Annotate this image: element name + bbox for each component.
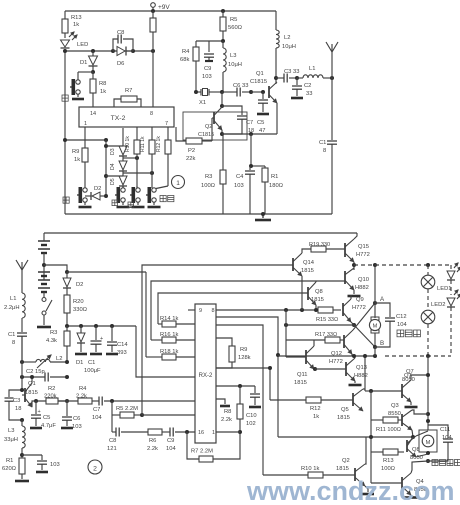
capacitor C11 104: [428, 425, 448, 438]
transistor Q13 H882: [345, 362, 347, 376]
wire pin6 row: [216, 325, 263, 475]
capacitor C10 102: [254, 386, 256, 393]
diode D1: [92, 51, 94, 56]
svg-text:1815: 1815: [336, 466, 349, 472]
bus wire pin13: [151, 281, 345, 340]
svg-text:C9: C9: [204, 66, 211, 72]
transistor Q11 1815: [286, 356, 306, 358]
capacitor C5 4.7uF: [35, 401, 37, 414]
transistor Q5 1815: [352, 393, 354, 406]
wire pin15 row: [142, 414, 195, 416]
svg-text:C3: C3: [13, 398, 20, 404]
svg-text:R19 330: R19 330: [309, 242, 330, 248]
resistor R1 620: [19, 458, 25, 474]
svg-text:100μF: 100μF: [84, 368, 101, 374]
node LED junction row: [65, 50, 153, 52]
svg-text:R13: R13: [71, 15, 82, 21]
capacitor C12 104: [375, 303, 390, 317]
svg-text:D2: D2: [76, 282, 83, 288]
svg-text:C6 33: C6 33: [233, 83, 248, 89]
transistor Q15 H772: [344, 243, 346, 257]
transistor Q10 H882: [344, 271, 346, 284]
svg-text:33: 33: [306, 91, 312, 97]
lamp LED1 bulb: [427, 265, 429, 275]
svg-text:Q1: Q1: [256, 71, 264, 77]
node D1 bottom: [91, 70, 95, 74]
svg-text:104: 104: [166, 446, 176, 452]
capacitor C7 104: [98, 397, 100, 406]
svg-text:Q9: Q9: [356, 297, 364, 303]
node B: [373, 345, 377, 349]
bus wire pin12: [158, 293, 308, 324]
ground Q4: [410, 495, 412, 496]
capacitor C1 100uF: [95, 326, 97, 340]
svg-text:128k: 128k: [238, 355, 251, 361]
resistor R10 1k: [136, 127, 138, 140]
pushbutton S-fwd: [136, 186, 138, 188]
svg-text:1k: 1k: [74, 157, 80, 163]
resistor R13 100: [371, 451, 383, 453]
wire R4 C9 branch: [196, 40, 223, 42]
bus left column: [285, 310, 287, 357]
svg-text:R7 2.2M: R7 2.2M: [191, 449, 213, 455]
svg-text:B: B: [380, 340, 384, 347]
svg-text:104: 104: [397, 322, 407, 328]
svg-text:C1: C1: [8, 332, 15, 338]
svg-text:R2: R2: [48, 386, 55, 392]
capacitor C3 18: [9, 390, 22, 397]
wire emitter row: [36, 400, 67, 402]
resistor R13 1k: [64, 11, 66, 19]
svg-text:LED2: LED2: [431, 302, 446, 308]
svg-text:47: 47: [259, 128, 265, 134]
antenna TX: [331, 44, 333, 58]
svg-text:H772: H772: [356, 252, 370, 258]
capacitor C9 104: [162, 431, 170, 433]
svg-text:C2: C2: [304, 83, 311, 89]
svg-text:620Ω: 620Ω: [2, 466, 17, 472]
svg-text:R12: R12: [310, 406, 321, 412]
resistor unlabeled top right: [152, 11, 154, 18]
svg-text:RX-2: RX-2: [199, 373, 213, 379]
svg-text:R14 1k: R14 1k: [160, 316, 178, 322]
trimmer P2 22k: [176, 127, 186, 141]
svg-text:10μH: 10μH: [228, 62, 242, 68]
svg-text:1: 1: [84, 121, 87, 127]
svg-text:Q1: Q1: [28, 381, 36, 387]
transistor Q7 8050: [401, 384, 403, 398]
svg-text:M: M: [373, 324, 378, 330]
resistor R17 33: [286, 339, 325, 341]
wire lamp column steer: [427, 356, 429, 430]
svg-text:33μH: 33μH: [4, 437, 18, 443]
svg-text:Q2: Q2: [205, 124, 212, 130]
resistor R9 1k: [84, 140, 86, 148]
resistor R8 2.2k: [239, 386, 241, 404]
resistor R1 180: [264, 166, 266, 168]
capacitor C9 103: [204, 53, 214, 55]
resistor R12 1k: [167, 127, 169, 140]
wire lamp feed: [374, 265, 376, 303]
wire Q4 collector: [411, 461, 428, 473]
wire Q3 collector: [412, 410, 428, 414]
wire Q14 collector: [302, 249, 311, 253]
wire top supply rail: [65, 10, 276, 12]
svg-text:L3: L3: [8, 428, 14, 434]
wire Q9 collector: [350, 295, 352, 299]
svg-text:R5: R5: [230, 17, 237, 23]
resistor R9 128k: [216, 338, 232, 346]
LED indicator: [61, 40, 70, 47]
resistor R6 2.2k: [148, 429, 162, 435]
wire pin8 row: [216, 309, 318, 311]
wire tank column: [21, 336, 23, 362]
svg-text:L2: L2: [56, 356, 62, 362]
resistor R20 330: [64, 295, 70, 313]
resistor R3 4.3k: [66, 326, 68, 331]
svg-text:Q8: Q8: [315, 289, 323, 295]
svg-text:4.7μF: 4.7μF: [41, 423, 56, 429]
svg-text:C1: C1: [319, 140, 326, 146]
crystal X1: [196, 91, 201, 93]
ground Q13: [354, 381, 356, 383]
main motor M1: [374, 303, 376, 318]
wire pin7 row: [216, 317, 278, 437]
svg-text:D1: D1: [76, 360, 83, 366]
svg-text:2: 2: [93, 466, 97, 473]
svg-text:R8: R8: [224, 409, 231, 415]
node A: [373, 301, 377, 305]
svg-text:8: 8: [12, 340, 15, 346]
wire diode matrix column A: [105, 140, 107, 196]
svg-text:R4: R4: [182, 49, 190, 55]
svg-text:9: 9: [199, 308, 202, 314]
svg-text:2.2μH: 2.2μH: [4, 305, 20, 311]
svg-text:Q10: Q10: [358, 277, 369, 283]
svg-text:C1: C1: [88, 360, 95, 366]
svg-text:393: 393: [117, 350, 127, 356]
wire Q12 collector X: [352, 330, 353, 331]
wire Q3 emitter: [412, 430, 413, 437]
svg-text:+: +: [38, 409, 41, 415]
diode D2: [85, 195, 91, 197]
ground Q10: [353, 290, 355, 294]
svg-text:L3: L3: [230, 53, 236, 59]
capacitor C6 103: [66, 401, 68, 416]
svg-text:D6: D6: [117, 61, 124, 67]
oscillator module box: [183, 112, 247, 140]
wire Q8 collector link: [315, 281, 317, 282]
wire to D2: [44, 265, 67, 272]
svg-text:R5 2.2M: R5 2.2M: [116, 406, 138, 412]
svg-text:C12: C12: [396, 314, 407, 320]
svg-text:R6: R6: [149, 438, 156, 444]
wire Q8b collector: [416, 431, 428, 436]
resistor R5 560: [222, 11, 224, 17]
capacitor C3 33: [274, 76, 278, 80]
resistor R15 33: [318, 307, 333, 313]
capacitor C1b 8: [17, 332, 27, 334]
svg-text:Q3: Q3: [391, 403, 399, 409]
svg-text:H772: H772: [352, 305, 366, 311]
label circuit 1: [172, 176, 185, 189]
svg-text:C4: C4: [236, 174, 244, 180]
diode D6: [113, 50, 117, 52]
pushbutton S-left: [78, 71, 93, 73]
ground RX pin: [216, 399, 225, 404]
svg-text:2.2k: 2.2k: [221, 417, 232, 423]
wire pin1 stub: [84, 127, 86, 140]
svg-text:R16 1k: R16 1k: [160, 332, 178, 338]
wire pin9 stub: [188, 309, 195, 311]
resistor R12 1k: [270, 399, 306, 401]
svg-text:1: 1: [176, 180, 180, 187]
transistor Q1 1815: [24, 388, 26, 402]
ground Q7: [410, 402, 412, 405]
wire left rail: [64, 33, 66, 38]
svg-text:560Ω: 560Ω: [228, 25, 243, 31]
svg-text:2.2k: 2.2k: [147, 446, 158, 452]
svg-text:+9V: +9V: [158, 4, 170, 11]
wire Q8b emitter: [416, 454, 428, 457]
wire dashed lamp bottom: [385, 355, 451, 357]
transistor Q2 1815: [354, 468, 356, 481]
svg-text:1k: 1k: [73, 22, 79, 28]
svg-text:22k: 22k: [186, 156, 195, 162]
svg-text:D4: D4: [110, 163, 116, 170]
wire pin1 row: [65, 139, 106, 141]
bus wire pin14: [145, 272, 147, 357]
svg-text:103: 103: [50, 462, 60, 468]
svg-text:Q15: Q15: [358, 244, 369, 250]
svg-text:1815: 1815: [337, 415, 350, 421]
svg-text:R13: R13: [383, 458, 394, 464]
resistor R11 1k: [151, 127, 153, 140]
svg-text:D2: D2: [94, 186, 101, 192]
svg-text:R18 1k: R18 1k: [160, 349, 178, 355]
svg-text:R9: R9: [240, 347, 247, 353]
wire motor rail: [278, 355, 375, 357]
capacitor C14 393: [111, 326, 113, 341]
svg-text:R7: R7: [125, 88, 132, 94]
wire diode matrix column B: [122, 128, 124, 146]
transistor Q4 8050: [371, 482, 402, 484]
svg-text:H882: H882: [354, 373, 368, 379]
ground battery: [37, 326, 51, 329]
node battery tap: [43, 253, 45, 280]
capacitor C4 103: [250, 134, 252, 166]
svg-text:180Ω: 180Ω: [269, 183, 284, 189]
diode D2: [66, 272, 68, 278]
resistor R18 1k: [146, 356, 162, 358]
wire secondary rail: [67, 271, 146, 273]
IC U1 TX-2: [79, 107, 174, 127]
ground main TX: [262, 214, 264, 218]
resistor R2 220k: [46, 398, 58, 404]
inductor L2 10uH: [275, 11, 277, 30]
svg-text:10μH: 10μH: [282, 44, 296, 50]
wire battery top rail: [44, 232, 357, 234]
svg-text:C10: C10: [246, 413, 257, 419]
svg-text:R11 100Ω: R11 100Ω: [376, 427, 401, 433]
svg-text:68k: 68k: [180, 57, 189, 63]
label steering motor: [432, 460, 438, 466]
svg-text:R4: R4: [79, 386, 87, 392]
transistor Q3 8550: [401, 414, 403, 426]
svg-text:1k: 1k: [313, 414, 319, 420]
wire row437: [278, 436, 413, 438]
inductor L3 10uH: [222, 41, 224, 48]
svg-text:www.cndzz.com: www.cndzz.com: [246, 476, 455, 500]
svg-text:Q8: Q8: [412, 447, 420, 453]
svg-text:121: 121: [107, 446, 117, 452]
svg-text:103: 103: [202, 74, 212, 80]
resistor R8 1k: [92, 72, 94, 79]
pushbutton S-turbo: [152, 188, 156, 192]
transistor Q8 1815: [307, 287, 309, 300]
svg-text:C11: C11: [440, 427, 450, 433]
svg-text:+: +: [100, 336, 103, 342]
transistor Q1 C1815: [251, 91, 263, 93]
wire L3 node: [21, 420, 23, 426]
svg-text:103: 103: [72, 424, 82, 430]
svg-text:LED: LED: [77, 42, 88, 48]
svg-text:8: 8: [212, 308, 215, 314]
svg-text:R10 1k: R10 1k: [301, 466, 319, 472]
resistor R16 1k: [151, 339, 162, 341]
svg-text:100Ω: 100Ω: [201, 183, 216, 189]
svg-text:C8: C8: [117, 30, 124, 36]
capacitor C2 33: [295, 76, 299, 80]
svg-text:R15 33Ω: R15 33Ω: [316, 317, 338, 323]
svg-text:330Ω: 330Ω: [73, 307, 88, 313]
svg-text:18: 18: [15, 406, 21, 412]
svg-text:TX-2: TX-2: [111, 115, 126, 122]
svg-text:C8: C8: [109, 438, 116, 444]
inductor L1 2.2uH: [22, 293, 25, 318]
steering motor M2: [419, 430, 437, 452]
wire Q15 emitter node: [353, 262, 355, 270]
resistor R3 100: [222, 133, 223, 135]
inductor L3 33uH: [22, 426, 25, 448]
wire Q14 emitter: [301, 276, 303, 310]
svg-text:R10 1k: R10 1k: [125, 136, 131, 152]
svg-text:2.2k: 2.2k: [76, 394, 87, 400]
resistor R10 1k: [263, 474, 308, 476]
wire pin5 row: [216, 385, 255, 387]
svg-text:8550: 8550: [388, 411, 401, 417]
svg-text:C9: C9: [167, 438, 174, 444]
capacitor C1 8: [331, 78, 333, 140]
wire supply rail RX: [67, 325, 136, 327]
svg-text:R9: R9: [72, 149, 79, 155]
svg-text:H882: H882: [355, 285, 369, 291]
wire Q2 collector: [365, 437, 366, 464]
IC U2 RX-2: [195, 304, 216, 443]
svg-text:C5: C5: [257, 120, 264, 126]
capacitor C5 47: [262, 92, 264, 99]
node detector junction: [110, 399, 114, 403]
svg-text:220k: 220k: [44, 394, 57, 400]
transistor Q8b 8050: [406, 440, 408, 452]
svg-text:C1815: C1815: [250, 79, 267, 85]
diode D3: [119, 146, 127, 155]
svg-text:14: 14: [90, 111, 96, 117]
capacitor C7 18: [222, 106, 242, 115]
svg-text:R8: R8: [99, 81, 106, 87]
resistor R11 100: [371, 419, 383, 421]
trimmer L2: [22, 361, 36, 363]
pushbutton S-right: [83, 188, 87, 192]
wire Q13 base row: [315, 368, 346, 370]
wire Q15 collector: [354, 233, 357, 239]
svg-text:R17 33Ω: R17 33Ω: [315, 332, 337, 338]
svg-text:X1: X1: [199, 100, 206, 106]
svg-text:8: 8: [323, 148, 326, 154]
pushbutton S-back: [122, 186, 124, 188]
svg-text:7: 7: [165, 121, 168, 127]
svg-text:R20: R20: [73, 299, 84, 305]
resistor R7 2.2M: [187, 432, 199, 459]
node +9V supply terminal: [151, 3, 156, 8]
svg-text:104: 104: [442, 435, 452, 441]
svg-text:1k: 1k: [100, 89, 106, 95]
resistor R19 330: [311, 246, 326, 252]
wire Q7 collector: [411, 375, 428, 380]
svg-text:L1: L1: [10, 296, 16, 302]
svg-text:D1: D1: [80, 60, 87, 66]
svg-text:1815: 1815: [25, 390, 38, 396]
diode D4: [119, 161, 127, 170]
svg-text:L1: L1: [309, 66, 315, 72]
svg-text:Q11: Q11: [297, 372, 308, 378]
svg-text:R3: R3: [50, 330, 57, 336]
svg-text:D5: D5: [110, 178, 116, 185]
capacitor C8: [113, 39, 118, 51]
svg-text:1: 1: [212, 430, 215, 436]
resistor R5 2.2M: [112, 414, 120, 416]
bus wire pin15: [142, 265, 293, 415]
svg-text:1815: 1815: [311, 297, 324, 303]
svg-text:L2: L2: [284, 35, 290, 41]
svg-text:103: 103: [234, 183, 244, 189]
transistor Q2 C1815: [221, 92, 223, 106]
svg-text:Q14: Q14: [303, 260, 315, 266]
wire Q12 emitter: [351, 354, 353, 356]
svg-text:104: 104: [92, 415, 102, 421]
svg-text:C7: C7: [246, 120, 253, 126]
wire steer bus: [370, 391, 372, 483]
transistor Q14 1815: [292, 258, 294, 271]
capacitor bypass 103: [22, 454, 42, 456]
ground Q2: [365, 486, 368, 492]
wire matrix crosslinks: [106, 145, 123, 147]
svg-text:H772: H772: [329, 359, 343, 365]
wire rail to RX pin: [136, 326, 195, 377]
svg-text:P2: P2: [188, 148, 195, 154]
svg-text:8: 8: [150, 111, 153, 117]
svg-text:R3: R3: [205, 174, 212, 180]
svg-text:M: M: [426, 440, 431, 446]
svg-text:C5: C5: [43, 415, 50, 421]
wire Q9 emitter X: [351, 322, 354, 325]
LED1 diode: [447, 271, 455, 279]
wire emitter bottom row: [222, 133, 277, 135]
diode D5: [119, 176, 127, 185]
lamp LED2 bulb: [427, 289, 429, 310]
wire Q5 feed: [216, 368, 270, 400]
svg-text:D3: D3: [110, 148, 116, 155]
